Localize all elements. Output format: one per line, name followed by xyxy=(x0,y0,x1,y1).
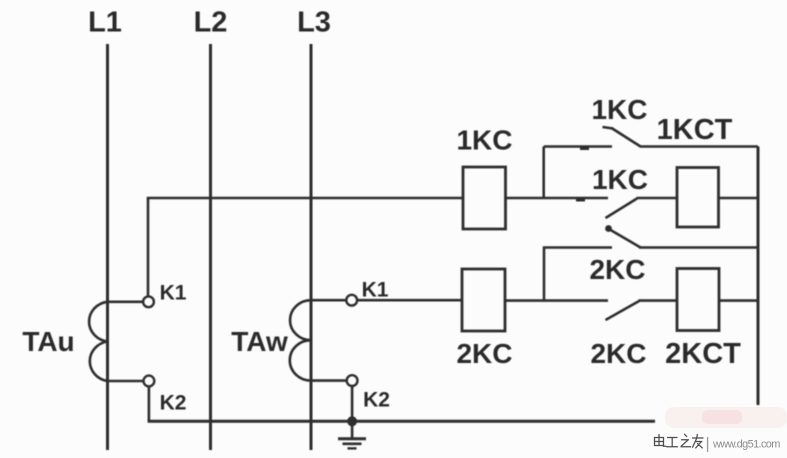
svg-text:K2: K2 xyxy=(160,392,187,415)
svg-text:K2: K2 xyxy=(363,389,390,412)
bottom rail wire xyxy=(148,420,655,423)
svg-text:2KCT: 2KCT xyxy=(665,338,741,370)
wire K2(TAw) down to bottom rail xyxy=(351,386,354,421)
wire K2(TAu) down to bottom rail xyxy=(148,386,151,421)
wire row1: branch corner to contact 1KC xyxy=(544,145,612,148)
svg-text:1KC: 1KC xyxy=(591,94,647,125)
glyph dian xyxy=(655,435,666,447)
wire row3: branch corner to contact xyxy=(544,248,612,302)
wire row4: contact to 2KCT coil xyxy=(639,299,678,302)
contact 1KC (row1) blade xyxy=(612,128,641,147)
contact 1KC (row2) blade xyxy=(606,199,638,219)
phase line L2 xyxy=(209,44,212,450)
phase line L1 xyxy=(106,44,109,450)
watermark pink smudge xyxy=(665,407,787,428)
svg-text:2KC: 2KC xyxy=(590,338,646,369)
svg-text:TAu: TAu xyxy=(22,326,74,357)
glyph gong xyxy=(667,438,678,447)
svg-text:2KC: 2KC xyxy=(456,338,512,369)
svg-text:K1: K1 xyxy=(362,279,389,302)
wire row2: K1(TAu) corner to 1KC coil xyxy=(148,198,463,199)
ground symbol xyxy=(338,421,366,448)
relay coil 1KCT xyxy=(677,168,719,228)
current transformer TAu secondary winding xyxy=(89,302,107,381)
pivot junction of middle contacts xyxy=(605,225,612,232)
svg-text:1KC: 1KC xyxy=(592,164,648,195)
svg-text:1KCT: 1KCT xyxy=(657,114,733,146)
svg-text:K1: K1 xyxy=(160,282,187,305)
terminal K1 (TAw) xyxy=(346,295,357,306)
current transformer TAw secondary winding xyxy=(290,300,311,380)
svg-text:L2: L2 xyxy=(194,7,228,39)
wire row4: 2KCT coil to right bus xyxy=(719,299,758,302)
wire TAw arc top to K1 terminal xyxy=(311,299,346,302)
wire K1(TAu) up to row2 xyxy=(147,198,150,296)
glyph zhi xyxy=(681,434,691,447)
wire row4: K1(TAw) to 2KC coil xyxy=(357,299,462,302)
svg-text:|: | xyxy=(706,436,710,453)
relay coil 1KC xyxy=(463,167,506,229)
wire row2: 1KCT coil to right bus xyxy=(719,197,759,200)
terminal K1 (TAu) xyxy=(143,296,154,307)
svg-text:1KC: 1KC xyxy=(456,125,512,156)
svg-text:L3: L3 xyxy=(297,7,331,39)
contact 2KC (row3) blade xyxy=(608,229,641,248)
svg-text:www.dg51.com: www.dg51.com xyxy=(712,439,780,451)
wire row3: contact to right bus xyxy=(639,246,758,249)
svg-text:L1: L1 xyxy=(88,7,122,39)
wire row2: 1KC coil to contact xyxy=(506,197,609,200)
glyph you xyxy=(693,435,704,448)
junction mark row2 xyxy=(576,198,585,201)
svg-text:TAw: TAw xyxy=(231,326,288,357)
relay coil 2KC xyxy=(462,269,505,331)
wire branch up from row2 to row1 xyxy=(542,147,545,199)
wire row1: contact to right bus xyxy=(640,145,758,148)
right bus vertical wire xyxy=(757,147,760,406)
svg-text:2KC: 2KC xyxy=(589,254,645,285)
junction mark row1 xyxy=(580,147,589,150)
wire row2: contact to 1KCT coil xyxy=(637,197,678,200)
terminal K2 (TAw) xyxy=(347,375,358,386)
wire row4: 2KC coil to contact xyxy=(505,299,608,302)
junction dot (TAw K2 to rail) xyxy=(347,416,357,426)
wire TAu arc top to K1 terminal xyxy=(108,300,144,303)
phase line L3 xyxy=(310,44,313,450)
watermark text 电工之友 (drawn strokes) xyxy=(655,434,704,448)
terminal K2 (TAu) xyxy=(144,376,155,387)
wire TAw arc bottom to K2 terminal xyxy=(311,379,347,382)
wire TAu arc bottom to K2 terminal xyxy=(108,380,144,383)
contact 1KC (row1) blade tick xyxy=(603,127,614,129)
relay coil 2KCT xyxy=(677,269,719,331)
contact 2KC (row4) blade xyxy=(606,301,640,320)
